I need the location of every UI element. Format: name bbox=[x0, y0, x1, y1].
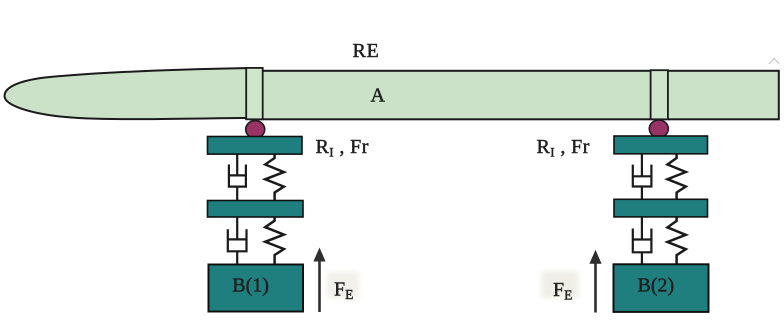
spring K1 upper-left bbox=[265, 154, 284, 200]
svg-text:A: A bbox=[371, 85, 386, 107]
spring K4 lower-right bbox=[668, 217, 686, 265]
block B(2) bbox=[614, 264, 709, 312]
svg-text:B(1): B(1) bbox=[232, 274, 269, 296]
damper D4 lower-right bbox=[633, 217, 652, 265]
rail 2 bbox=[614, 136, 708, 154]
svg-text:B(2): B(2) bbox=[638, 274, 675, 296]
rocket body A (nose section) bbox=[5, 68, 251, 119]
spring K3 upper-right bbox=[668, 154, 686, 199]
band at wheel 1 bbox=[246, 68, 263, 119]
svg-text:RI , Fr: RI , Fr bbox=[537, 136, 590, 160]
svg-text:RI , Fr: RI , Fr bbox=[316, 136, 369, 160]
wheel 2 bbox=[649, 120, 668, 138]
smudge behind FE right bbox=[541, 271, 579, 298]
block B(1) bbox=[209, 265, 304, 312]
damper D2 lower-left bbox=[228, 217, 247, 265]
damper D3 upper-right bbox=[633, 154, 652, 199]
svg-text:RE: RE bbox=[353, 40, 380, 62]
spring K2 lower-left bbox=[265, 217, 284, 265]
wheel 1 bbox=[246, 121, 265, 139]
sleeper 2 bbox=[614, 199, 708, 217]
rocket body A (main tube) bbox=[250, 71, 779, 120]
rail 1 bbox=[208, 137, 303, 155]
sleeper 1 bbox=[208, 201, 304, 218]
band at wheel 2 bbox=[651, 70, 668, 119]
force arrow F_E left bbox=[313, 248, 325, 313]
damper D1 upper-left bbox=[229, 154, 246, 200]
force arrow F_E right bbox=[589, 250, 601, 313]
smudge behind FE left bbox=[327, 272, 359, 298]
artifact mark top-right bbox=[769, 59, 779, 65]
